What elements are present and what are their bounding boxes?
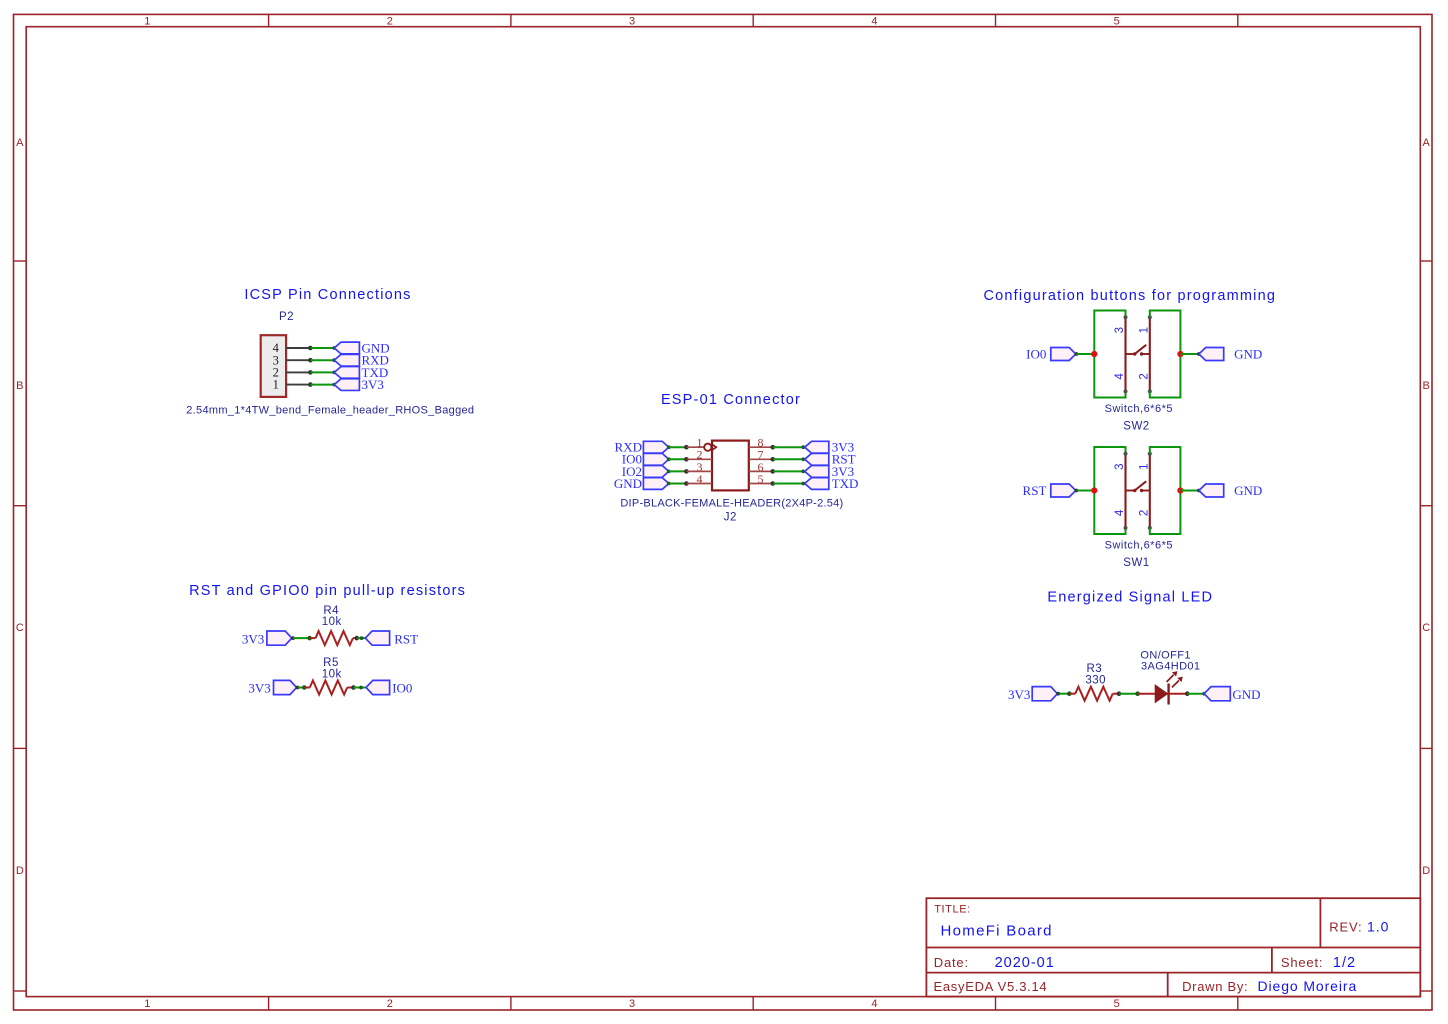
svg-text:C: C — [1422, 622, 1430, 634]
row tick marks right band — [1420, 260, 1432, 262]
svg-text:B: B — [16, 380, 23, 392]
svg-text:2: 2 — [387, 998, 393, 1010]
junction dot P2 pin 3 — [308, 358, 313, 363]
svg-text:2: 2 — [1138, 510, 1150, 516]
svg-text:5: 5 — [758, 472, 764, 486]
svg-text:Diego Moreira: Diego Moreira — [1258, 978, 1358, 994]
P2 pin 3 lead — [286, 359, 310, 361]
net flag RXD — [334, 354, 359, 366]
SW2 pin 2 end dot — [1148, 389, 1152, 393]
junction dot IO2 flag tip — [667, 470, 671, 474]
title block outline — [926, 898, 1420, 996]
SW1 contact dot left — [1133, 489, 1136, 492]
svg-text:GND: GND — [1232, 687, 1260, 702]
R3 left lead — [1069, 693, 1075, 695]
SW1 pin 4 end dot — [1124, 526, 1128, 530]
SW2 pin bar 3-4 — [1124, 317, 1126, 391]
junction dot R5 right — [351, 685, 356, 690]
resistor R5 — [310, 681, 347, 695]
junction dot at GND flag — [332, 346, 336, 350]
LED anode lead — [1138, 693, 1156, 695]
svg-text:3: 3 — [629, 16, 635, 28]
SW1 pin 1 end dot — [1148, 452, 1152, 456]
svg-text:3: 3 — [629, 998, 635, 1010]
net flag RST — [365, 631, 389, 645]
SW2 pin 3 end dot — [1124, 315, 1128, 319]
net flag TXD — [805, 478, 829, 490]
net flag RXD — [643, 441, 668, 453]
net flag GND — [1199, 348, 1224, 361]
svg-text:ESP-01 Connector: ESP-01 Connector — [661, 392, 801, 408]
junction dot 3V3 flag tip — [801, 445, 805, 449]
svg-text:3AG4HD01: 3AG4HD01 — [1141, 661, 1200, 673]
svg-text:C: C — [16, 622, 24, 634]
junction dot R4 left — [307, 636, 312, 641]
wire R3 to LED — [1119, 693, 1138, 695]
net flag TXD — [334, 367, 359, 379]
svg-text:IO0: IO0 — [1026, 347, 1046, 362]
LED light arrow 2 — [1172, 680, 1179, 687]
svg-text:DIP-BLACK-FEMALE-HEADER(2X4P-2: DIP-BLACK-FEMALE-HEADER(2X4P-2.54) — [620, 498, 843, 510]
svg-text:1: 1 — [1138, 327, 1150, 333]
svg-text:2: 2 — [387, 16, 393, 28]
svg-text:J2: J2 — [724, 511, 737, 523]
svg-text:D: D — [16, 865, 24, 877]
wire right loop of SW1 — [1150, 447, 1181, 534]
red junction dot right SW2 — [1177, 351, 1183, 357]
svg-text:1: 1 — [144, 998, 150, 1010]
svg-text:EasyEDA V5.3.14: EasyEDA V5.3.14 — [934, 979, 1048, 994]
SW1 pin bar 1-2 — [1149, 454, 1151, 528]
svg-text:B: B — [1423, 380, 1430, 392]
net flag RST — [805, 453, 829, 465]
svg-text:TXD: TXD — [832, 476, 859, 491]
junction dot J2 pin 5 — [771, 481, 776, 486]
svg-text:1.0: 1.0 — [1367, 918, 1389, 934]
junction dot at RXD flag — [332, 358, 336, 362]
junction dot J2 pin 3 — [684, 469, 689, 474]
svg-text:3: 3 — [1114, 463, 1126, 469]
svg-text:REV:: REV: — [1329, 919, 1362, 934]
wire P2 pin 3 to RXD — [310, 359, 334, 361]
junction dot P2 pin 1 — [308, 382, 313, 387]
P2 pin 1 lead — [286, 384, 310, 386]
svg-text:Configuration buttons for prog: Configuration buttons for programming — [983, 288, 1276, 304]
junction dot 3V3 flag tip — [291, 636, 295, 640]
J2 pin 5 lead — [749, 483, 773, 485]
net flag 3V3 — [274, 680, 297, 694]
svg-text:5: 5 — [1114, 16, 1120, 28]
J2 pin 2 lead — [686, 458, 712, 460]
svg-text:4: 4 — [697, 472, 703, 486]
svg-text:2020-01: 2020-01 — [995, 955, 1055, 971]
column tick marks top band — [268, 14, 270, 26]
SW2 contact dot right — [1140, 352, 1143, 355]
wire SW1 to GND — [1180, 490, 1199, 492]
net flag 3V3 — [334, 379, 359, 391]
J2 pin 8 lead — [749, 446, 773, 448]
wire left loop of SW2 — [1094, 311, 1125, 398]
P2 pin 2 lead — [286, 371, 310, 373]
red junction dot right SW1 — [1177, 487, 1183, 493]
R3 right lead — [1113, 693, 1119, 695]
SW2 contact stub right — [1142, 353, 1150, 355]
svg-text:A: A — [16, 137, 24, 149]
junction dot 3V3 flag tip — [296, 686, 300, 690]
SW1 pin 2 end dot — [1148, 526, 1152, 530]
SW2 pin 1 end dot — [1148, 315, 1152, 319]
J2 pin 6 lead — [749, 470, 773, 472]
resistor R4 — [316, 631, 353, 645]
svg-text:P2: P2 — [279, 311, 294, 323]
wire 3V3 to R4 — [293, 637, 310, 639]
wire IO0 to SW2 — [1076, 353, 1094, 355]
svg-text:Sheet:: Sheet: — [1281, 955, 1323, 970]
net flag GND — [1199, 484, 1224, 497]
LED light arrow 1 — [1167, 675, 1174, 682]
wire R4 to RST — [357, 637, 366, 639]
title block DrawnBy divider — [1167, 973, 1169, 997]
junction dot IO0 flag tip — [1075, 352, 1079, 356]
svg-text:RST: RST — [1023, 483, 1047, 498]
junction dot RXD flag tip — [667, 445, 671, 449]
LED cathode bar — [1167, 684, 1169, 705]
R5 right lead — [347, 687, 353, 689]
net flag IO0 — [366, 680, 390, 694]
wire left loop of SW1 — [1094, 447, 1125, 534]
net flag 3V3 — [805, 441, 829, 453]
R4 left lead — [310, 637, 316, 639]
svg-text:1/2: 1/2 — [1333, 955, 1356, 971]
wire right loop of SW2 — [1150, 311, 1181, 398]
junction dot R4 right — [355, 636, 360, 641]
svg-text:3V3: 3V3 — [1008, 687, 1030, 702]
J2 pin 1 lead — [686, 446, 704, 448]
SW2 pin 4 end dot — [1124, 389, 1128, 393]
title block row divider 1 — [926, 947, 1420, 949]
svg-text:ICSP Pin Connections: ICSP Pin Connections — [244, 287, 411, 303]
junction dot J2 pin 4 — [684, 481, 689, 486]
net flag IO2 — [643, 466, 668, 478]
junction dot P2 pin 4 — [308, 346, 313, 351]
R4 right lead — [353, 637, 357, 639]
SW1 pin 3 end dot — [1124, 452, 1128, 456]
svg-text:1: 1 — [1138, 463, 1150, 469]
svg-text:SW1: SW1 — [1123, 557, 1149, 569]
wire J2 pin 6 to 3V3 — [773, 470, 804, 472]
junction dot TXD flag tip — [801, 482, 805, 486]
net flag IO0 — [643, 453, 668, 465]
junction dot RST flag tip — [801, 457, 805, 461]
wire RXD to J2 pin 1 — [669, 446, 687, 448]
junction dot GND flag tip — [1197, 352, 1201, 356]
SW2 contact stub left — [1126, 353, 1134, 355]
wire RST to SW1 — [1076, 490, 1094, 492]
SW1 contact stub right — [1142, 490, 1150, 492]
wire GND to J2 pin 4 — [669, 483, 687, 485]
junction dot RST flag tip — [1075, 489, 1079, 493]
svg-text:IO0: IO0 — [392, 681, 412, 696]
svg-text:GND: GND — [614, 476, 642, 491]
junction dot RST flag tip — [360, 636, 364, 640]
wire 3V3 to R5 — [298, 687, 305, 689]
svg-text:Switch,6*6*5: Switch,6*6*5 — [1105, 540, 1173, 552]
svg-text:RST: RST — [394, 631, 418, 646]
SW1 contact dot right — [1140, 489, 1143, 492]
net flag 3V3 — [1032, 687, 1057, 701]
junction dot at 3V3 flag — [332, 383, 336, 387]
svg-text:3V3: 3V3 — [242, 631, 264, 646]
junction dot R3 right — [1117, 691, 1122, 696]
svg-text:R3: R3 — [1086, 663, 1102, 675]
svg-text:Date:: Date: — [934, 955, 969, 970]
wire R5 to IO0 — [354, 687, 367, 689]
wire P2 pin 1 to 3V3 — [310, 384, 334, 386]
net flag RST — [1051, 484, 1076, 497]
svg-text:10k: 10k — [322, 668, 342, 680]
junction dot GND flag tip — [1202, 692, 1206, 696]
title block row divider 2 — [926, 972, 1420, 974]
net flag GND — [1204, 687, 1230, 701]
svg-text:2.54mm_1*4TW_bend_Female_heade: 2.54mm_1*4TW_bend_Female_header_RHOS_Bag… — [186, 405, 474, 417]
svg-text:2: 2 — [1138, 373, 1150, 379]
SW1 pin bar 3-4 — [1124, 454, 1126, 528]
svg-text:1: 1 — [144, 16, 150, 28]
wire LED to GND — [1187, 693, 1204, 695]
SW2 contact dot left — [1133, 352, 1136, 355]
svg-text:10k: 10k — [322, 616, 342, 628]
svg-text:1: 1 — [273, 378, 279, 392]
junction dot J2 pin 6 — [771, 469, 776, 474]
wire P2 pin 2 to TXD — [310, 371, 334, 373]
wire IO0 to J2 pin 2 — [669, 458, 687, 460]
junction dot J2 pin 8 — [771, 445, 776, 450]
wire 3V3 to R3 — [1058, 693, 1069, 695]
svg-text:Switch,6*6*5: Switch,6*6*5 — [1105, 403, 1173, 415]
wire P2 pin 4 to GND — [310, 347, 334, 349]
title block REV divider — [1319, 898, 1321, 947]
J2 pin 1 inversion bubble — [704, 444, 711, 451]
junction dot J2 pin 2 — [684, 457, 689, 462]
svg-text:330: 330 — [1085, 675, 1106, 687]
SW1 actuator lever — [1134, 481, 1146, 491]
svg-text:5: 5 — [1114, 998, 1120, 1010]
junction dot P2 pin 2 — [308, 370, 313, 375]
junction dot J2 pin 1 — [684, 445, 689, 450]
net flag GND — [334, 342, 359, 354]
junction dot J2 pin 7 — [771, 457, 776, 462]
SW2 actuator lever — [1134, 345, 1146, 355]
junction dot IO0 flag tip — [667, 457, 671, 461]
svg-text:Energized Signal LED: Energized Signal LED — [1047, 590, 1213, 606]
svg-text:4: 4 — [1114, 373, 1126, 380]
connector J2 body — [712, 441, 749, 491]
junction dot LED cathode — [1185, 691, 1190, 696]
wire J2 pin 8 to 3V3 — [773, 446, 804, 448]
resistor R3 — [1075, 687, 1112, 701]
svg-text:SW2: SW2 — [1123, 421, 1149, 433]
LED cathode lead — [1169, 693, 1188, 695]
J2 pin 4 lead — [686, 483, 712, 485]
junction dot GND flag tip — [1197, 489, 1201, 493]
P2 pin 4 lead — [286, 347, 310, 349]
J2 pin 7 lead — [749, 458, 773, 460]
net flag 3V3 — [805, 466, 829, 478]
net flag 3V3 — [267, 631, 292, 645]
SW2 pin bar 1-2 — [1149, 317, 1151, 391]
wire IO2 to J2 pin 3 — [669, 470, 687, 472]
junction dot R3 left — [1067, 691, 1072, 696]
svg-text:A: A — [1423, 137, 1431, 149]
red junction dot left SW1 — [1091, 487, 1097, 493]
svg-text:TITLE:: TITLE: — [934, 904, 971, 916]
svg-text:GND: GND — [1234, 483, 1262, 498]
red junction dot left SW2 — [1091, 351, 1097, 357]
wire J2 pin 7 to RST — [773, 458, 804, 460]
junction dot 3V3 flag tip — [801, 470, 805, 474]
svg-text:4: 4 — [871, 998, 877, 1010]
junction dot GND flag tip — [667, 482, 671, 486]
junction dot IO0 flag tip — [359, 686, 363, 690]
LED ON/OFF1 triangle — [1155, 685, 1167, 702]
svg-text:Drawn By:: Drawn By: — [1182, 979, 1248, 994]
svg-text:4: 4 — [871, 16, 877, 28]
junction dot R5 left — [302, 685, 307, 690]
net flag GND — [643, 478, 668, 490]
svg-text:RST and GPIO0 pin pull-up resi: RST and GPIO0 pin pull-up resistors — [189, 583, 466, 599]
net flag IO0 — [1051, 348, 1076, 361]
svg-text:4: 4 — [1114, 509, 1126, 516]
svg-text:GND: GND — [1234, 347, 1262, 362]
junction dot at TXD flag — [332, 371, 336, 375]
SW1 contact stub left — [1126, 490, 1134, 492]
J2 pin 1 arrow marker — [712, 444, 717, 450]
svg-text:3: 3 — [1114, 327, 1126, 333]
R5 left lead — [304, 687, 310, 689]
junction dot 3V3 flag tip — [1056, 692, 1060, 696]
title block Sheet divider — [1271, 948, 1273, 973]
wire SW2 to GND — [1180, 353, 1199, 355]
svg-text:HomeFi Board: HomeFi Board — [941, 923, 1053, 940]
connector P2 body — [261, 335, 286, 397]
column tick marks bottom band — [268, 997, 270, 1010]
row tick marks left band — [14, 260, 27, 262]
svg-text:3V3: 3V3 — [248, 681, 270, 696]
wire J2 pin 5 to TXD — [773, 483, 804, 485]
svg-text:3V3: 3V3 — [362, 377, 384, 392]
J2 pin 3 lead — [686, 470, 712, 472]
junction dot LED anode — [1135, 691, 1140, 696]
svg-text:D: D — [1422, 865, 1430, 877]
